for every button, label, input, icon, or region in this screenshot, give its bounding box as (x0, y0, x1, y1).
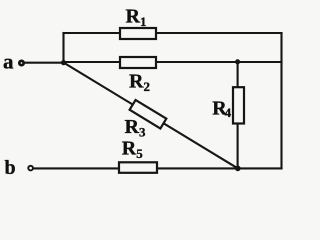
svg-text:b: b (5, 157, 16, 179)
svg-text:4: 4 (225, 105, 232, 120)
svg-text:a: a (3, 50, 14, 74)
